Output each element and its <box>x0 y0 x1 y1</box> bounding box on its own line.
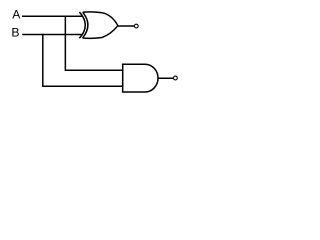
svg-text:B: B <box>11 26 19 40</box>
svg-text:A: A <box>12 8 21 22</box>
